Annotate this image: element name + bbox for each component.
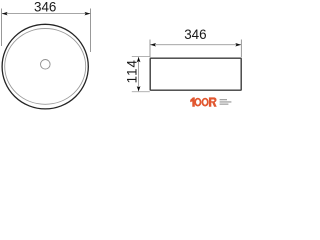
svg-text:346: 346 (184, 27, 206, 42)
svg-text:114: 114 (125, 59, 140, 83)
svg-text:346: 346 (34, 0, 56, 15)
